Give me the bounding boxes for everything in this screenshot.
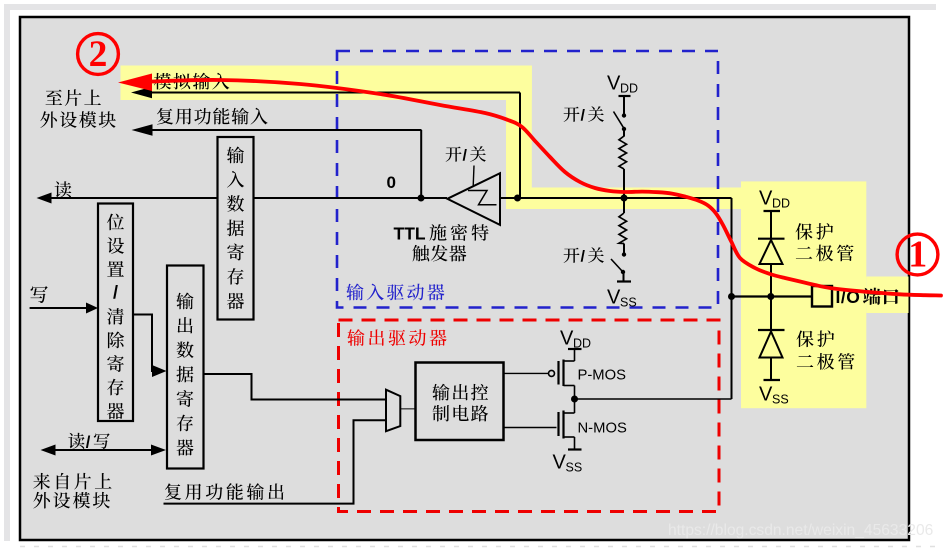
svg-text:DD: DD: [573, 337, 591, 351]
svg-text:0: 0: [387, 173, 396, 192]
svg-text:V: V: [553, 452, 567, 474]
svg-text:/: /: [581, 248, 586, 266]
svg-text:V: V: [759, 188, 773, 210]
svg-text:DD: DD: [772, 197, 790, 211]
svg-text:/: /: [86, 433, 91, 452]
svg-text:SS: SS: [772, 393, 789, 407]
svg-text:/: /: [581, 107, 586, 125]
svg-text:SS: SS: [620, 296, 637, 310]
svg-text:V: V: [560, 328, 574, 350]
svg-text:/: /: [113, 283, 118, 303]
svg-text:/: /: [463, 146, 468, 164]
svg-text:N-MOS: N-MOS: [578, 421, 627, 437]
svg-text:2: 2: [89, 34, 108, 75]
svg-text:TTL: TTL: [394, 223, 426, 243]
svg-text:1: 1: [908, 234, 927, 276]
svg-text:V: V: [607, 287, 621, 309]
svg-text:P-MOS: P-MOS: [578, 368, 627, 384]
svg-text:SS: SS: [566, 461, 583, 475]
svg-text:https://blog.csdn.net/weixin_4: https://blog.csdn.net/weixin_45633206: [668, 522, 933, 539]
svg-text:V: V: [607, 73, 621, 95]
svg-text:DD: DD: [620, 82, 638, 96]
svg-text:V: V: [759, 384, 773, 406]
